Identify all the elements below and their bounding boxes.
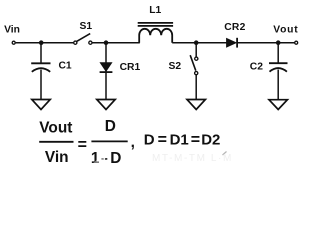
wire C1 to ground xyxy=(40,70,42,100)
inductor L1 winding xyxy=(139,29,172,43)
wire S2 to ground xyxy=(195,75,197,100)
svg-text:D2: D2 xyxy=(201,132,220,149)
svg-text:C1: C1 xyxy=(59,61,72,72)
node junction S2 xyxy=(194,40,199,45)
ground under CR1 xyxy=(97,100,115,110)
diode CR1 xyxy=(100,63,113,73)
wire S1 to L1 xyxy=(92,42,140,44)
svg-text:L1: L1 xyxy=(149,5,161,16)
watermark streak over 1-D xyxy=(92,152,110,166)
ground under C1 xyxy=(32,100,50,110)
equation D = D1 = D2 xyxy=(144,132,221,149)
wire CR2 to Vout xyxy=(237,42,294,44)
ground under S2 xyxy=(187,100,205,110)
svg-text:=: = xyxy=(78,136,87,153)
equation fraction bar 1 xyxy=(39,141,73,143)
capacitor C2 xyxy=(269,63,288,71)
diode CR2 xyxy=(227,38,238,48)
svg-text:S2: S2 xyxy=(169,61,182,72)
wire C2 to ground xyxy=(277,70,279,100)
svg-text:Vout: Vout xyxy=(273,24,298,35)
node junction C2 xyxy=(276,40,281,45)
wire Vin to S1 xyxy=(16,42,74,44)
capacitor C1 xyxy=(31,63,50,72)
wire junction to C1 xyxy=(40,43,42,63)
terminal Vout xyxy=(295,41,298,44)
svg-text:D: D xyxy=(105,118,116,135)
svg-text:=: = xyxy=(191,132,200,149)
node junction CR1 xyxy=(104,40,109,45)
wire junction to S2 xyxy=(195,43,197,57)
svg-text:D: D xyxy=(144,132,155,149)
svg-text:S1: S1 xyxy=(80,21,93,32)
switch S1 xyxy=(74,34,92,45)
svg-text:C2: C2 xyxy=(250,62,263,73)
svg-text:CR2: CR2 xyxy=(224,22,246,33)
inductor L1 core bars xyxy=(138,23,173,26)
svg-text:D: D xyxy=(110,150,121,167)
equation fraction bar 2 xyxy=(91,140,127,142)
svg-text:D1: D1 xyxy=(170,132,189,149)
switch S2 xyxy=(190,55,198,74)
svg-text:,: , xyxy=(131,134,135,151)
watermark tick xyxy=(223,152,227,156)
wire junction to C2 xyxy=(277,43,279,63)
svg-text:Vin: Vin xyxy=(45,149,69,166)
ground under C2 xyxy=(269,100,287,110)
svg-text:CR1: CR1 xyxy=(120,62,141,73)
svg-text:Vout: Vout xyxy=(39,120,72,137)
wire junction to CR1 xyxy=(105,43,107,100)
svg-text:=: = xyxy=(158,132,167,149)
node junction C1 xyxy=(39,40,44,45)
wire L1 to CR2 xyxy=(172,42,227,44)
svg-text:Vin: Vin xyxy=(4,25,20,36)
svg-text:MT-M-TM L·M: MT-M-TM L·M xyxy=(152,153,233,164)
terminal Vin xyxy=(12,41,15,44)
